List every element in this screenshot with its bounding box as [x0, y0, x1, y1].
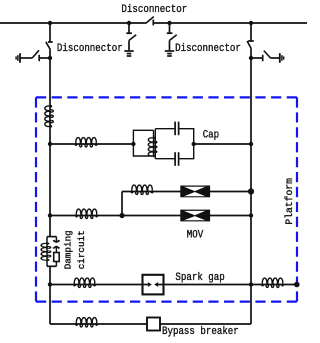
inductor L4 (MOV top line): [131, 185, 153, 194]
wire: left earth branch: [39, 57, 50, 59]
node: cap block right junction: [192, 142, 196, 146]
inductor L6 (damping, left branch): [46, 237, 48, 267]
svg-text:Spark gap: Spark gap: [175, 271, 224, 284]
capacitor C2 (bottom): [175, 152, 179, 166]
wire: MOV jog vertical: [121, 192, 123, 216]
node: junction MOV jog / bottom line: [119, 213, 124, 218]
wire: top bus right segment: [154, 22, 307, 24]
earthing switch ES1 (blade and contact): [20, 50, 39, 61]
wire: left vertical main: [49, 50, 51, 237]
svg-text:Disconnector: Disconnector: [57, 42, 123, 55]
wire: MOV top line: [122, 191, 181, 193]
svg-text:Disconnector: Disconnector: [121, 3, 187, 16]
svg-text:Bypass breaker: Bypass breaker: [162, 325, 239, 338]
ground (left, pointing left): [16, 53, 20, 63]
svg-text:MOV: MOV: [187, 229, 204, 242]
inductor L5 (MOV bottom line): [76, 209, 98, 218]
node: junction MOV bottom / right vertical: [249, 213, 253, 217]
wire: spark gap line right: [164, 284, 252, 286]
capacitor C1 (top): [175, 122, 179, 136]
node: junction left drop / earth branch: [48, 56, 52, 60]
node: bus junction at x=251: [249, 21, 253, 25]
wire: MOV bottom line: [50, 215, 181, 217]
node: junction spark line / right vertical: [249, 282, 253, 286]
node: bus junction at x=50: [48, 21, 52, 25]
wire: right drop upper stub: [250, 23, 252, 41]
wire: cap outer loop bottom rail: [155, 158, 174, 160]
node: cap block left junction: [131, 142, 135, 146]
node: bus junction at x=169.5: [167, 21, 171, 25]
inductor L9 (bypass line): [76, 318, 98, 327]
ground (right, pointing right): [280, 53, 284, 63]
disconnector DS3 (right drop switch): [247, 41, 254, 49]
wire: spark line platform stub: [251, 284, 297, 286]
MOV arrester A2: [180, 210, 210, 222]
earthing switch ES4 (blade and contact): [263, 51, 280, 62]
svg-text:Platform: Platform: [284, 178, 295, 225]
node: bus junction at x=129: [127, 21, 131, 25]
inductor L7 (spark line left): [74, 278, 96, 287]
wire: damping loop top rail: [47, 236, 56, 238]
inductor L8 (spark line right): [262, 278, 284, 287]
ground (mid-right): [165, 51, 174, 56]
inductor L3 (cap block, vertical): [153, 130, 155, 156]
spark gap electrodes (damping, facing arrows): [53, 237, 59, 253]
ground (mid-left): [124, 51, 133, 56]
earthing switch ES3 (mid-right, x=169.5): [167, 23, 177, 50]
node: junction spark line / left vertical: [48, 282, 52, 286]
node: junction MOV top / right vertical (large): [248, 188, 254, 194]
disconnector DS2 (left drop switch): [46, 42, 53, 50]
wire: left drop upper stub: [49, 23, 51, 42]
wire: MOV top line right: [210, 191, 251, 193]
wire: MOV bottom line right: [210, 215, 251, 217]
wire: right vertical main: [250, 49, 252, 324]
wire: cap outer loop top rail: [155, 128, 174, 130]
node: junction cap line / left vertical: [48, 142, 52, 146]
svg-text:Disconnector: Disconnector: [175, 42, 241, 55]
resistor R1 (damping, right branch): [54, 253, 60, 267]
wire: cap line right: [194, 143, 251, 145]
inductor L2 (cap line): [75, 138, 97, 147]
wire: cap inner small loop: [133, 130, 153, 156]
spark gap SG1: [143, 275, 164, 295]
wire: top bus left segment: [0, 22, 146, 24]
wire: cap line left: [50, 143, 133, 145]
wire: left vertical below damping: [49, 267, 51, 325]
svg-text:Cap: Cap: [203, 129, 219, 142]
wire: spark gap line left: [50, 284, 143, 286]
wire: bypass line right: [160, 323, 251, 325]
inductor L1 (on left vertical): [45, 105, 54, 127]
node: junction MOV bottom / left vertical: [48, 213, 52, 217]
wire: cap outer loop right side: [179, 129, 193, 159]
bypass breaker CB1: [147, 318, 160, 331]
node: junction cap line / right vertical: [249, 142, 253, 146]
wire: right earth branch: [251, 57, 262, 59]
node: junction right drop / earth branch: [249, 56, 253, 60]
platform boundary (dashed box): [36, 97, 297, 301]
wire: damping loop bottom rail: [47, 265, 56, 267]
disconnector DS1 (bus switch blade and contact): [146, 17, 154, 26]
earthing switch ES2 (mid-left, x=129): [126, 23, 136, 50]
node: platform terminal: [294, 282, 300, 288]
wire: bypass line: [50, 323, 147, 325]
wire: cap outer loop left side: [154, 129, 156, 159]
MOV arrester A1: [180, 186, 210, 198]
